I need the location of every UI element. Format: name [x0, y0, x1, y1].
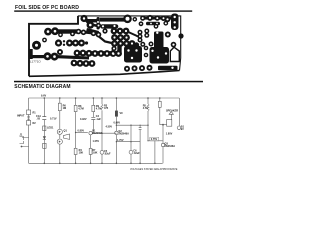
svg-text:SPEAKER: SPEAKER	[166, 110, 178, 113]
svg-text:VOLTAGES STATED ARE APPROXIMAT: VOLTAGES STATED ARE APPROXIMATE	[130, 168, 178, 171]
svg-text:1M: 1M	[63, 107, 66, 110]
svg-text:0.71V: 0.71V	[50, 118, 57, 121]
svg-text:10K: 10K	[79, 151, 84, 154]
svg-text:LED1: LED1	[47, 127, 54, 130]
svg-text:.05: .05	[37, 117, 41, 120]
svg-text:(L1771O: (L1771O	[29, 60, 42, 64]
svg-text:4.7M: 4.7M	[96, 108, 102, 111]
svg-text:2N2646A: 2N2646A	[165, 145, 176, 148]
svg-text:9V: 9V	[181, 128, 184, 131]
svg-text:.1uF: .1uF	[96, 118, 102, 121]
svg-text:0.96V: 0.96V	[114, 121, 121, 124]
svg-text:4.7K: 4.7K	[143, 107, 148, 110]
svg-text:475: 475	[104, 107, 109, 110]
svg-text:2N2646A: 2N2646A	[92, 132, 103, 135]
svg-text:FOIL SIDE OF PC BOARD: FOIL SIDE OF PC BOARD	[15, 5, 79, 11]
svg-text:SCHEMATIC DIAGRAM: SCHEMATIC DIAGRAM	[14, 84, 70, 90]
svg-text:2N2646A: 2N2646A	[118, 132, 129, 135]
svg-text:4.50V: 4.50V	[106, 126, 113, 129]
svg-text:0.92V: 0.92V	[80, 118, 87, 121]
svg-text:4.7M: 4.7M	[78, 108, 84, 111]
svg-text:9.6V: 9.6V	[41, 95, 46, 98]
svg-text:0.80V: 0.80V	[78, 130, 85, 133]
svg-text:1.05V: 1.05V	[93, 140, 100, 143]
svg-text:VC: VC	[120, 112, 124, 115]
svg-text:.02uF: .02uF	[104, 152, 111, 155]
svg-text:1.80V: 1.80V	[166, 133, 173, 136]
svg-text:3.9K: 3.9K	[92, 151, 97, 154]
svg-text:INPUT: INPUT	[17, 115, 25, 118]
svg-text:.02uF: .02uF	[133, 152, 140, 155]
svg-text:1.70V: 1.70V	[117, 139, 124, 142]
